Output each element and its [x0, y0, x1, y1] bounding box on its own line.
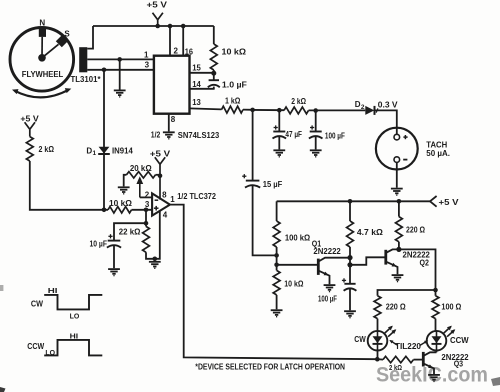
node Q2 base net: [347, 262, 352, 267]
svg-text:1: 1: [144, 51, 149, 60]
transistor Q1 2N2222: [318, 258, 350, 285]
capacitor 47 uF: [273, 125, 287, 138]
wire node A down: [252, 110, 254, 181]
svg-text:100 µF: 100 µF: [318, 295, 337, 304]
flywheel body: [10, 28, 74, 92]
svg-text:Q3: Q3: [454, 360, 464, 369]
resistor 220 Ohm up: [396, 217, 403, 242]
node bus c: [181, 24, 186, 29]
LED CCW TIL220: [427, 326, 456, 351]
svg-text:CCW: CCW: [450, 336, 469, 345]
svg-text:0.3 V: 0.3 V: [378, 101, 398, 110]
label TL3101*: [71, 75, 102, 84]
ground Q1: [324, 285, 336, 292]
pin label 14: [192, 80, 201, 89]
label LO ccw: [45, 348, 55, 357]
flywheel hub: [38, 54, 46, 62]
svg-text:1.0 µF: 1.0 µF: [222, 80, 247, 89]
pin label 3 opamp: [145, 200, 150, 209]
wire 100uF: [315, 111, 317, 132]
label IN914: [112, 146, 133, 155]
svg-text:47 µF: 47 µF: [285, 130, 302, 139]
svg-text:2 kΩ: 2 kΩ: [39, 145, 55, 154]
svg-text:22 kΩ: 22 kΩ: [119, 228, 141, 237]
tach - terminal: [394, 157, 407, 163]
IC U1 SN74LS123: [154, 56, 190, 114]
label +5 V top: [147, 1, 168, 10]
svg-text:SN74LS123: SN74LS123: [178, 131, 220, 140]
ground pot: [118, 187, 130, 194]
wire D2 to tach: [375, 110, 397, 134]
svg-text:2N2222: 2N2222: [313, 247, 341, 256]
label 20 kOhm: [130, 164, 152, 173]
ground 10uF: [108, 269, 120, 276]
wire 4.7k top: [349, 201, 351, 221]
svg-text:LO: LO: [45, 348, 55, 357]
node 47uF tap: [277, 108, 282, 113]
wire pin15: [190, 72, 214, 74]
svg-text:1/2: 1/2: [151, 131, 161, 140]
wire +in down: [145, 210, 147, 227]
capacitor 15 uF: [242, 174, 260, 188]
pin label 13: [192, 98, 201, 107]
label 15 uF: [263, 180, 283, 189]
wire 22k foot: [146, 252, 155, 258]
pin label 2: [174, 47, 179, 56]
ground TACH: [391, 189, 403, 196]
svg-text:10 kΩ: 10 kΩ: [109, 199, 133, 208]
pot wiper arrow: [136, 176, 143, 197]
label 2N2222 Q1: [313, 247, 341, 256]
label 2 kOhm base: [389, 365, 402, 372]
pin label 4 opamp: [163, 210, 168, 219]
wire pot left: [124, 175, 127, 187]
tach + terminal: [394, 134, 408, 140]
resistor 2 kOhm mid: [284, 107, 309, 114]
svg-text:+5 V: +5 V: [147, 1, 168, 10]
svg-text:14: 14: [192, 80, 201, 89]
transistor Q2 2N2222: [386, 249, 399, 274]
wire base Q3: [414, 359, 424, 361]
pin label 15: [192, 64, 201, 73]
resistor 22 kOhm: [143, 226, 150, 252]
wire pin14: [190, 87, 215, 89]
node CW foot: [375, 357, 380, 362]
wire pin8: [168, 114, 170, 132]
TIL220 leader left: [389, 340, 397, 345]
svg-text:CW: CW: [31, 299, 44, 308]
capacitor 100 uF: [309, 125, 323, 138]
svg-text:1: 1: [93, 150, 97, 157]
label 50 uA: [426, 149, 450, 158]
wire pin2: [169, 26, 171, 56]
label 47 uF: [285, 130, 302, 139]
svg-text:3: 3: [145, 200, 150, 209]
svg-text:2 kΩ: 2 kΩ: [389, 365, 402, 372]
wire pin4: [155, 210, 160, 258]
resistor 10 kOhm top: [210, 44, 217, 70]
scan mark bottom-right: [491, 377, 500, 386]
svg-text:10 kΩ: 10 kΩ: [284, 279, 304, 288]
label FLYWHEEL: [22, 70, 64, 79]
svg-text:CCW: CCW: [27, 342, 44, 351]
wire 220 top: [398, 201, 400, 216]
wire 220 foot: [398, 242, 400, 250]
label CW: [354, 335, 366, 344]
label S: [64, 30, 70, 39]
wire wiper to pin2: [140, 196, 152, 198]
node Q2 coll: [396, 247, 401, 252]
svg-text:1/2 TLC372: 1/2 TLC372: [177, 192, 216, 201]
wire Q1 to Q2: [350, 257, 386, 265]
svg-text:20 kΩ: 20 kΩ: [130, 164, 152, 173]
opamp plus: [154, 206, 159, 211]
label 0.3 V: [378, 101, 398, 110]
label 100 uF low: [318, 295, 337, 304]
resistor 2 kOhm left: [26, 137, 33, 161]
node vcc 4.7k: [348, 199, 353, 204]
label 4.7 kOhm: [357, 228, 384, 237]
svg-text:15 µF: 15 µF: [263, 180, 283, 189]
svg-text:TL3101*: TL3101*: [71, 75, 102, 84]
label +5 V mid: [150, 149, 171, 158]
node vcc 220: [397, 199, 402, 204]
svg-text:*DEVICE SELECTED FOR LATCH OPE: *DEVICE SELECTED FOR LATCH OPERATION: [195, 363, 345, 372]
svg-text:2: 2: [145, 190, 150, 199]
svg-text:10 µF: 10 µF: [90, 239, 108, 248]
node A: [250, 108, 255, 113]
waveform CCW: [44, 340, 102, 356]
svg-text:D: D: [86, 146, 92, 155]
svg-text:D: D: [355, 100, 361, 109]
wire to 10uF: [114, 223, 146, 240]
wire 100uF gnd: [315, 136, 317, 149]
wire 4.7k foot: [349, 247, 351, 284]
node D1 foot: [102, 208, 107, 213]
svg-text:1: 1: [170, 195, 175, 204]
label 1/2 U1: [151, 131, 161, 140]
node bus b: [168, 24, 173, 29]
wire rail: [253, 109, 284, 111]
magnet N pole: [39, 29, 46, 58]
node pin4 gnd: [153, 257, 158, 262]
svg-text:1 kΩ: 1 kΩ: [225, 97, 241, 106]
svg-text:100 Ω: 100 Ω: [441, 303, 462, 312]
node div b: [274, 263, 279, 268]
label 10 uF: [90, 239, 108, 248]
svg-text:4: 4: [163, 210, 168, 219]
op-amp U2: [152, 193, 170, 215]
wire 100k foot: [276, 247, 278, 270]
label 22 kOhm: [119, 228, 141, 237]
label 2N2222 Q2: [403, 250, 431, 259]
label SN74LS123: [178, 131, 220, 140]
TIL220 leader right: [420, 340, 429, 345]
svg-text:TIL220: TIL220: [395, 342, 422, 351]
wire 10k gnd: [276, 295, 278, 309]
label 100 Ohm: [441, 303, 462, 312]
pin label 16: [185, 48, 194, 57]
wire Q2 to LEDs: [399, 249, 436, 295]
svg-text:8: 8: [171, 115, 176, 124]
resistor 1 kOhm: [222, 106, 244, 113]
transistor Q3 2N2222: [423, 352, 436, 374]
supply +5V mid: [155, 157, 165, 199]
label 1/2 TLC372: [177, 192, 216, 201]
svg-text:15: 15: [192, 64, 201, 73]
wire to node: [243, 109, 253, 111]
wire 2k down: [30, 161, 108, 210]
wire 100 to led: [435, 319, 437, 331]
wire 47uF: [278, 110, 280, 131]
wire led bus: [378, 290, 436, 296]
label D2: [355, 100, 365, 111]
svg-text:N: N: [39, 18, 45, 27]
svg-text:S: S: [64, 30, 70, 39]
wire opamp out: [170, 205, 377, 360]
ground 47uF: [273, 150, 285, 157]
supply +5V left: [25, 122, 35, 136]
wire bus corner: [276, 201, 278, 221]
LED CW TIL220: [368, 326, 397, 351]
supply +5V top: [153, 13, 163, 26]
ground sensor: [114, 90, 126, 97]
node 22k tap: [144, 221, 149, 226]
label 2 kOhm mid: [291, 97, 306, 106]
ground 10k: [271, 310, 283, 317]
node bus a: [155, 24, 160, 29]
svg-text:3: 3: [145, 60, 150, 69]
svg-text:IN914: IN914: [112, 146, 133, 155]
ground Q2: [392, 275, 404, 282]
svg-text:+5 V: +5 V: [150, 149, 171, 158]
wire 220 to led: [377, 319, 379, 331]
lead 0.3V: [376, 108, 378, 112]
label 100 uF: [325, 131, 345, 140]
svg-text:HI: HI: [70, 331, 79, 340]
node led bus: [433, 288, 438, 293]
pin label 1: [144, 51, 149, 60]
label 220 Ohm up: [406, 226, 426, 235]
node 100uF tap: [313, 108, 318, 113]
label Q3: [454, 360, 464, 369]
label HI cw: [48, 286, 58, 295]
pin label 8: [171, 115, 176, 124]
resistor 100 kOhm: [273, 221, 280, 247]
svg-text:13: 13: [192, 98, 201, 107]
resistor 100 Ohm: [432, 296, 439, 319]
rotation arrow: [12, 88, 71, 97]
label 2 kOhm left: [39, 145, 55, 154]
svg-text:8: 8: [162, 191, 167, 200]
sensor TL3101: [79, 47, 87, 72]
label HI ccw: [70, 331, 79, 340]
label +5 V left: [20, 114, 39, 123]
note latch operation: [195, 363, 345, 372]
wire pin16: [182, 26, 184, 56]
scan mark bottom-left: [0, 387, 6, 392]
label 10 kOhm in: [109, 199, 133, 208]
wire sensor out2: [87, 69, 154, 71]
label Q2: [420, 258, 430, 267]
resistor 220 Ohm low: [374, 296, 381, 319]
diode D2: [365, 106, 374, 115]
wire 15uF down: [253, 185, 277, 255]
capacitor 1.0 uF: [208, 80, 220, 87]
wire to ground: [119, 59, 121, 89]
meter TACH body: [376, 128, 418, 170]
scan mark left edge: [0, 285, 3, 291]
node sensor out2: [102, 68, 107, 73]
waveform CW: [44, 295, 102, 310]
opamp minus: [155, 199, 159, 201]
wire vcc bus: [277, 200, 430, 202]
pin label 3: [145, 60, 150, 69]
label CCW wave: [27, 342, 44, 351]
label 100 kOhm: [285, 233, 311, 242]
svg-text:FLYWHEEL: FLYWHEEL: [22, 70, 64, 79]
wire to +in: [132, 209, 153, 211]
svg-text:10 kΩ: 10 kΩ: [222, 48, 247, 57]
svg-text:Q2: Q2: [420, 258, 430, 267]
magnet S pole: [42, 35, 68, 58]
wire CW foot: [377, 351, 379, 360]
svg-text:2: 2: [174, 47, 179, 56]
pin label 8 opamp: [162, 191, 167, 200]
ground opamp: [149, 262, 161, 269]
wire Q1 base: [277, 264, 319, 266]
ground 100uF low: [344, 311, 356, 318]
wire bus to R: [213, 26, 215, 44]
resistor 2 kOhm base: [377, 356, 413, 362]
svg-text:100 µF: 100 µF: [325, 131, 345, 140]
wire 10uF gnd: [113, 245, 115, 268]
label 2N2222 Q3: [441, 353, 469, 362]
ground Q3: [428, 375, 440, 382]
svg-text:CW: CW: [354, 335, 366, 344]
svg-text:2: 2: [361, 104, 365, 111]
label TIL220: [395, 342, 422, 351]
svg-text:2 kΩ: 2 kΩ: [291, 97, 306, 106]
capacitor 10 uF: [107, 234, 121, 247]
node +in: [144, 208, 149, 213]
svg-text:220 Ω: 220 Ω: [406, 226, 426, 235]
wire tach gnd: [396, 162, 398, 187]
svg-text:100 kΩ: 100 kΩ: [285, 233, 311, 242]
svg-text:+5 V: +5 V: [20, 114, 39, 123]
label D1: [86, 146, 96, 157]
ground 100uF: [310, 150, 322, 157]
supply +5V right: [430, 196, 437, 207]
resistor 10 kOhm in: [108, 207, 132, 213]
wire sensor supply: [87, 26, 93, 49]
svg-text:+5 V: +5 V: [439, 198, 460, 207]
svg-text:220 Ω: 220 Ω: [386, 303, 407, 312]
potentiometer 20 kOhm: [127, 172, 161, 178]
pin label 2 opamp: [145, 190, 150, 199]
svg-text:4.7 kΩ: 4.7 kΩ: [357, 228, 384, 237]
wire 47uF gnd: [278, 136, 280, 149]
label LO cw: [70, 312, 80, 321]
wire sensor out1: [87, 58, 154, 60]
wire R to cap: [213, 70, 215, 80]
wire D1 line: [103, 70, 105, 210]
label Q1: [312, 239, 322, 248]
label 1 kOhm: [225, 97, 241, 106]
label 10 kOhm top: [222, 48, 247, 57]
node div a: [274, 253, 279, 258]
wire rail2: [309, 109, 366, 111]
node opamp vcc: [158, 174, 163, 179]
wire CCW foot: [436, 351, 438, 353]
svg-text:HI: HI: [48, 286, 58, 295]
watermark SeekIC.com: [376, 364, 488, 387]
resistor 10 kOhm low: [273, 270, 280, 295]
wire 100uF low gnd: [349, 288, 351, 310]
label 220 Ohm low: [386, 303, 407, 312]
resistor 4.7 kOhm: [347, 221, 354, 247]
wire pin13: [190, 108, 222, 109]
svg-text:LO: LO: [70, 312, 80, 321]
pin label 1 opamp: [170, 195, 175, 204]
label CW wave: [31, 299, 44, 308]
diode D1: [98, 147, 110, 154]
wire top bus: [93, 25, 214, 27]
label 1.0 uF: [222, 80, 247, 89]
label TACH: [426, 140, 447, 149]
label CCW: [450, 336, 469, 345]
label N: [39, 18, 45, 27]
svg-text:50 µA.: 50 µA.: [426, 149, 450, 158]
label +5 V right: [439, 198, 460, 207]
label 10 kOhm low: [284, 279, 304, 288]
capacitor 100 uF low: [342, 278, 357, 291]
node Q1 coll: [347, 255, 352, 260]
ground U1: [163, 132, 175, 139]
node pin15: [211, 71, 216, 76]
node sensor out1: [117, 57, 122, 62]
